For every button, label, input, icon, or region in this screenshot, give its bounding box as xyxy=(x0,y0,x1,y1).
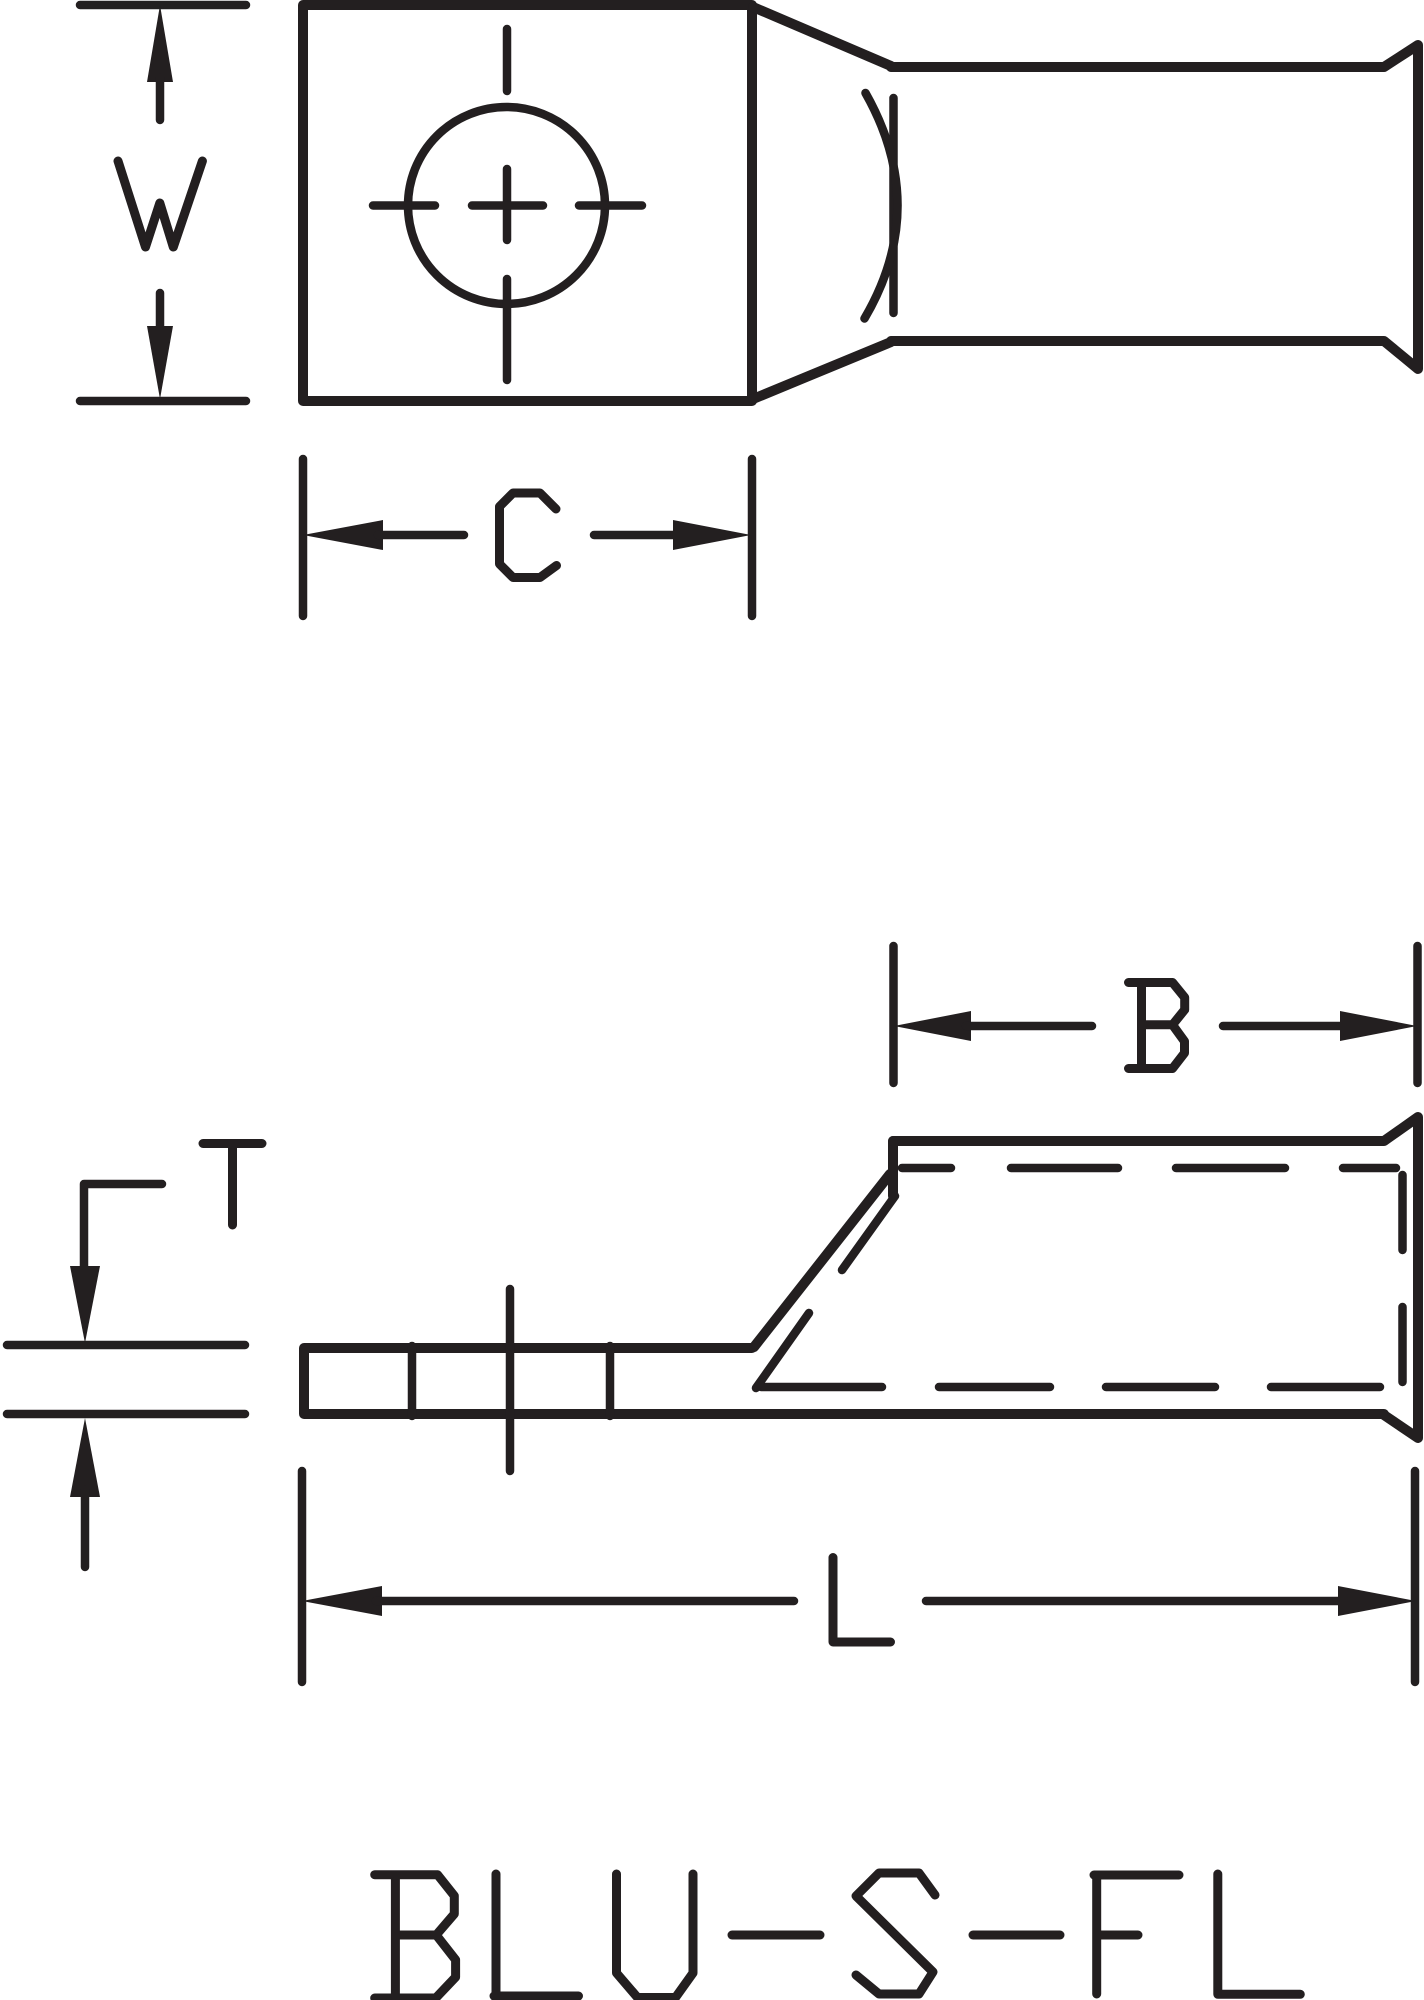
tongue pad outline (top view) xyxy=(303,5,752,401)
wire entry line (top view) xyxy=(889,98,898,313)
hidden line bottom (dashed) xyxy=(761,1383,1380,1392)
T arrow up xyxy=(70,1418,100,1497)
neck outer slant (side view) xyxy=(754,1174,890,1347)
hidden line flare (dashed) xyxy=(1398,1175,1407,1382)
tongue centerline (side view) xyxy=(506,1289,515,1471)
stud hole circle xyxy=(408,107,605,304)
hidden line top (dashed) xyxy=(902,1164,1396,1173)
W bottom extension line xyxy=(80,397,246,406)
part number hyphen 1 xyxy=(732,1931,820,1940)
part number letter B xyxy=(375,1875,456,1998)
barrel left cap (side view) xyxy=(888,1141,898,1196)
C right extension line xyxy=(748,459,757,616)
part number hyphen 2 xyxy=(973,1931,1060,1940)
letter W xyxy=(118,161,202,247)
letter T xyxy=(203,1144,262,1226)
W arrow up xyxy=(147,5,173,82)
crimp division lines (side view) xyxy=(412,1346,610,1416)
C left extension line xyxy=(299,459,308,616)
B right extension line xyxy=(1413,946,1422,1083)
transition slants (top view) xyxy=(753,7,891,399)
T arrow down xyxy=(70,1266,100,1343)
wire entry arc (top view) xyxy=(865,93,898,319)
T bottom extension line xyxy=(7,1410,245,1419)
W top extension line xyxy=(80,1,246,10)
letter B xyxy=(1129,983,1185,1069)
letter L (dimension) xyxy=(833,1558,891,1643)
part number letter F xyxy=(1094,1875,1179,1994)
T top extension line xyxy=(7,1341,245,1350)
B left extension line xyxy=(889,946,898,1083)
T leader line xyxy=(84,1184,162,1266)
part number letter S xyxy=(856,1873,935,1994)
hidden slant dashes (side view) xyxy=(756,1196,895,1388)
barrel outline with flared mouth (top view) xyxy=(891,45,1418,369)
B arrow left xyxy=(894,1011,971,1041)
C arrow right xyxy=(594,531,678,540)
C arrow left xyxy=(303,520,383,550)
L left extension line xyxy=(298,1471,307,1682)
hole vertical centerline xyxy=(503,29,512,380)
barrel outline (side view) xyxy=(893,1117,1418,1438)
hole horizontal centerline xyxy=(373,201,642,210)
W arrow down xyxy=(156,293,165,332)
L arrow left xyxy=(302,1586,382,1616)
L right extension line xyxy=(1411,1471,1420,1682)
part number letter U xyxy=(617,1874,694,1998)
letter C xyxy=(500,493,557,578)
part number letter L2 xyxy=(1218,1874,1301,1994)
part number letter L xyxy=(494,1874,579,1996)
B arrow right xyxy=(1223,1022,1346,1031)
tongue bar (side view) xyxy=(304,1348,1384,1414)
L arrow right xyxy=(926,1597,1344,1606)
